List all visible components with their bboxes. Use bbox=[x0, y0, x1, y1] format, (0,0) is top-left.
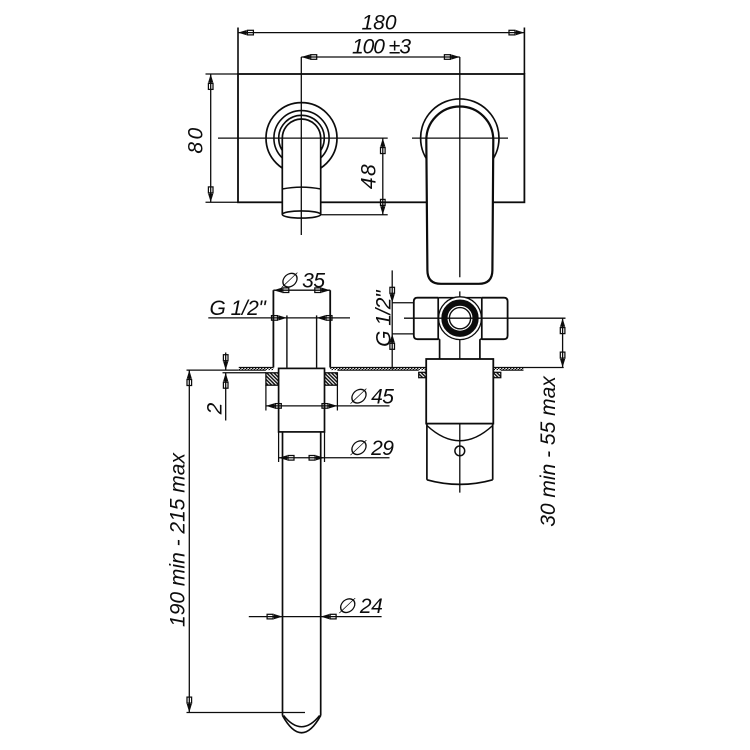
wall section hatched band bbox=[187, 368, 564, 371]
handle centerline horizontal bbox=[412, 137, 508, 139]
dimension G 1/2" (valve) bbox=[373, 270, 414, 368]
handle centerline vertical bbox=[459, 57, 461, 493]
dimension 80 bbox=[185, 74, 239, 202]
spout drop tube ∅24 bbox=[283, 432, 321, 733]
svg-text:48: 48 bbox=[358, 163, 381, 189]
valve in-wall block bbox=[426, 359, 493, 424]
dimension 2 (flange stand-off) bbox=[204, 353, 229, 421]
svg-text:100 ±3: 100 ±3 bbox=[352, 35, 411, 58]
dimension ∅29 bbox=[279, 432, 395, 462]
svg-text:30 min - 55 max: 30 min - 55 max bbox=[537, 375, 560, 527]
svg-text:2: 2 bbox=[204, 402, 227, 415]
svg-text:190 min - 215 max: 190 min - 215 max bbox=[167, 452, 190, 627]
spout wall tube ∅35 (side view) bbox=[273, 290, 330, 367]
svg-text:G 1/2": G 1/2" bbox=[210, 297, 268, 320]
valve flange tabs (hatched) bbox=[419, 372, 501, 377]
set screw circle bbox=[455, 446, 465, 456]
neck bbox=[439, 339, 441, 359]
dimension 180 bbox=[238, 12, 524, 36]
left inlet cap bbox=[414, 298, 438, 340]
svg-text:∅ 24: ∅ 24 bbox=[337, 595, 383, 618]
spout flange ∅45 (hatched section) bbox=[223, 373, 338, 385]
spout escutcheon circles (front view) bbox=[266, 103, 337, 174]
G 1/2 thread lines bbox=[287, 315, 317, 367]
spout body ∅29 (below wall) bbox=[279, 368, 325, 432]
dimension ∅24 bbox=[249, 595, 382, 619]
right inlet cap bbox=[482, 298, 508, 340]
spout nose (front view tube) bbox=[282, 119, 320, 218]
dimension 48 bbox=[321, 138, 388, 215]
dimension 190 min - 215 max bbox=[167, 370, 306, 712]
center section bbox=[438, 297, 482, 299]
handle lever (front view) bbox=[426, 106, 493, 283]
spout centerline horizontal bbox=[218, 137, 388, 139]
cartridge boss circles bbox=[439, 297, 482, 340]
spout centerline vertical bbox=[300, 57, 302, 235]
svg-text:∅ 29: ∅ 29 bbox=[348, 437, 394, 460]
mixer valve body (side view) bbox=[414, 298, 508, 359]
dimension 30 min - 55 max bbox=[537, 318, 565, 527]
dimension G 1/2" (spout) bbox=[208, 297, 350, 321]
svg-text:80: 80 bbox=[185, 125, 208, 153]
svg-text:180: 180 bbox=[361, 12, 396, 35]
wall plate (front view rectangle) bbox=[238, 28, 524, 203]
dimension ∅45 bbox=[266, 385, 394, 410]
svg-text:∅ 35: ∅ 35 bbox=[279, 269, 325, 292]
svg-text:G 1/2": G 1/2" bbox=[373, 289, 396, 347]
wall line extensions bbox=[187, 369, 239, 371]
valve horizontal centerline bbox=[404, 317, 566, 319]
valve lower cylinder bbox=[427, 424, 493, 485]
dimension ∅35 bbox=[273, 269, 330, 293]
dimension 100 ±3 bbox=[301, 35, 460, 59]
handle escutcheon circle (front view) bbox=[421, 99, 499, 177]
svg-text:∅ 45: ∅ 45 bbox=[348, 385, 394, 408]
